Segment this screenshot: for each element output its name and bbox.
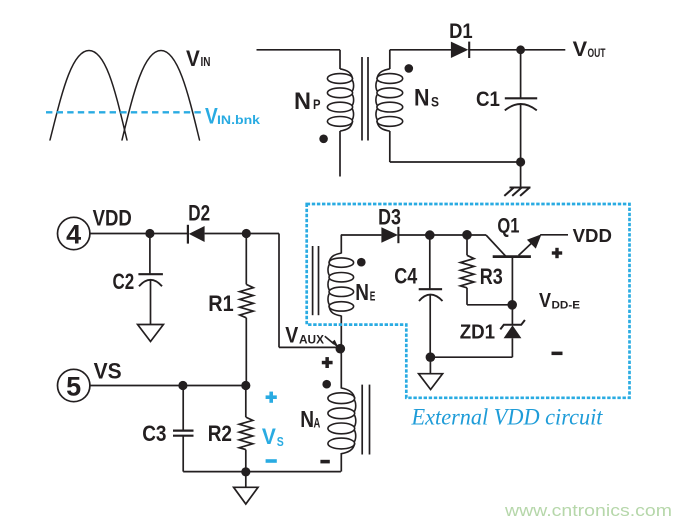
svg-text:D2: D2 [188, 200, 210, 225]
svg-text:C2: C2 [113, 269, 135, 294]
svg-text:VDD: VDD [573, 226, 612, 246]
svg-text:R2: R2 [208, 421, 232, 446]
svg-text:E: E [370, 289, 376, 304]
svg-text:External VDD circuit: External VDD circuit [411, 405, 604, 430]
svg-text:DD-E: DD-E [552, 300, 581, 312]
svg-text:D1: D1 [449, 20, 473, 43]
svg-text:R3: R3 [480, 264, 503, 289]
svg-text:N: N [355, 279, 369, 305]
svg-text:OUT: OUT [588, 46, 606, 60]
svg-text:IN: IN [201, 54, 211, 69]
svg-text:D3: D3 [378, 204, 401, 229]
svg-text:4: 4 [66, 219, 81, 249]
svg-text:S: S [431, 94, 439, 110]
svg-text:www.cntronics.com: www.cntronics.com [504, 501, 672, 520]
svg-text:N: N [294, 88, 311, 115]
svg-text:VS: VS [94, 359, 122, 384]
svg-text:C3: C3 [142, 421, 166, 446]
svg-text:P: P [313, 96, 321, 112]
svg-text:V: V [573, 38, 588, 61]
svg-text:ZD1: ZD1 [460, 322, 495, 344]
svg-text:VDD: VDD [93, 206, 132, 231]
svg-text:IN.bnk: IN.bnk [217, 113, 260, 127]
svg-text:C4: C4 [394, 264, 418, 289]
svg-text:V: V [539, 290, 552, 312]
svg-text:N: N [414, 85, 430, 112]
svg-text:AUX: AUX [299, 333, 324, 347]
svg-text:R1: R1 [208, 291, 233, 316]
svg-text:C1: C1 [476, 88, 500, 111]
svg-text:A: A [314, 415, 321, 431]
svg-text:N: N [300, 406, 314, 432]
svg-text:S: S [277, 434, 284, 449]
svg-text:V: V [262, 424, 276, 449]
svg-text:V: V [186, 46, 200, 71]
svg-text:V: V [285, 323, 298, 348]
svg-text:Q1: Q1 [497, 215, 519, 238]
svg-text:5: 5 [66, 371, 81, 401]
